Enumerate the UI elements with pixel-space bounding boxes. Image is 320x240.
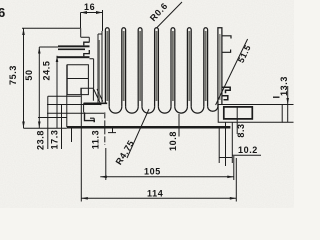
dim 10.8 line <box>178 114 180 137</box>
shelf under wedge <box>84 102 108 104</box>
dim 11.3 line <box>104 112 106 145</box>
dim 10.2 shelf <box>232 154 261 156</box>
left flange: step at top <box>81 28 90 42</box>
svg-text:17.3: 17.3 <box>50 130 60 150</box>
left edge lower <box>66 65 68 127</box>
svg-text:105: 105 <box>144 167 161 177</box>
svg-text:8.3: 8.3 <box>236 123 246 137</box>
dim 50 line <box>38 47 40 128</box>
svg-text:16: 16 <box>84 2 95 12</box>
svg-text:114: 114 <box>147 189 163 199</box>
dim 16 line <box>81 12 103 14</box>
base bottom <box>67 126 231 129</box>
left channel wall <box>98 31 102 103</box>
dim 10.2 line <box>219 157 232 159</box>
dim 10.2 extensions <box>219 122 232 166</box>
hook 1 <box>84 42 90 45</box>
dim 16 left extension <box>80 13 82 29</box>
dim 105 line <box>100 176 234 178</box>
right wall <box>218 28 222 107</box>
dim 11.3 extension <box>47 112 104 114</box>
dim 24.5 line <box>56 56 58 128</box>
stub below base left <box>71 127 73 142</box>
dim 13.3 line <box>287 86 289 122</box>
shelf band 3 <box>57 56 90 58</box>
svg-text:24.5: 24.5 <box>42 61 52 81</box>
leader dia 4.75 <box>127 109 149 158</box>
flange right edge <box>90 59 94 89</box>
dim 75.3 line <box>23 28 25 128</box>
small mark below base <box>108 128 116 133</box>
big box <box>67 65 88 95</box>
svg-text:50: 50 <box>24 69 34 80</box>
dim 114 extensions <box>81 88 236 201</box>
dim 50 extension <box>39 46 58 48</box>
wedge diagonals <box>94 89 103 105</box>
hook arm to base <box>90 118 94 122</box>
dim 114 line <box>81 197 236 199</box>
svg-text:10.2: 10.2 <box>238 145 258 155</box>
shelf band 1 <box>58 45 90 47</box>
dim 16 text <box>84 2 95 12</box>
shelf band 2 <box>58 49 85 51</box>
svg-text:6: 6 <box>0 5 6 20</box>
dim 105 extensions <box>106 148 234 180</box>
hook 2 <box>84 50 90 56</box>
dim 23.8 line <box>47 96 49 149</box>
box divider <box>67 78 89 80</box>
label 6 top-left <box>0 5 6 20</box>
tick near 13.3 <box>273 96 280 98</box>
lower hook <box>85 112 95 122</box>
right wall lower hooks <box>222 87 230 93</box>
base bottom left extension <box>24 127 67 129</box>
dim 17.3 line <box>61 105 63 150</box>
svg-text:75.3: 75.3 <box>8 65 18 85</box>
fins <box>105 28 207 107</box>
block edge extensions right <box>282 105 293 123</box>
leader 51.5 <box>216 39 248 105</box>
dim 8.3 line <box>236 107 238 134</box>
dim 17.3 extension <box>47 104 101 106</box>
tab top <box>81 88 94 101</box>
svg-text:23.8: 23.8 <box>36 130 46 150</box>
gap arcs <box>109 107 218 113</box>
dim 17.3 text <box>50 130 60 150</box>
right block <box>218 105 282 123</box>
top flange edge + 75.3 extension <box>22 27 81 29</box>
dim 23.8 extension <box>48 95 81 97</box>
lower hook leg <box>83 103 85 112</box>
svg-text:11.3: 11.3 <box>91 130 101 149</box>
extension line y117 <box>38 117 67 119</box>
svg-text:10.8: 10.8 <box>168 131 178 151</box>
dim 16 right extension <box>102 10 104 31</box>
svg-text:13.3: 13.3 <box>279 76 289 96</box>
fin interior scan-gray <box>99 31 220 101</box>
block slot <box>224 107 253 119</box>
leader R0.6 <box>157 2 183 28</box>
right wall top hook C <box>222 36 231 53</box>
